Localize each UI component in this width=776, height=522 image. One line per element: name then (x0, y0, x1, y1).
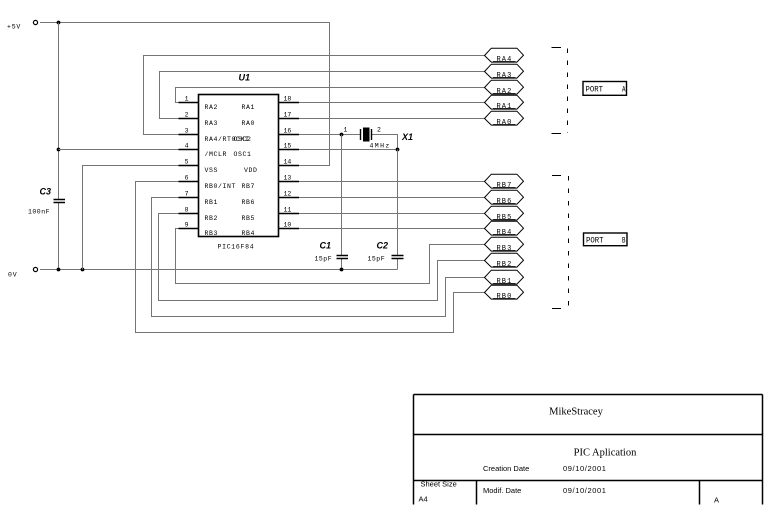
svg-text:RB5: RB5 (241, 215, 255, 222)
svg-text:6: 6 (185, 175, 189, 182)
svg-text:10: 10 (284, 222, 292, 229)
svg-text:RA2: RA2 (497, 88, 513, 96)
junction 0V rail and C1 (340, 268, 344, 272)
capacitor C2 (392, 256, 404, 259)
svg-text:14: 14 (284, 159, 292, 166)
svg-text:RA3: RA3 (497, 72, 513, 80)
svg-text:C2: C2 (377, 241, 389, 251)
net flag RB7 (485, 174, 524, 190)
svg-text:RB1: RB1 (205, 199, 219, 206)
svg-text:RB3: RB3 (497, 245, 513, 253)
IC U1 PIC16F84 body (199, 95, 279, 237)
svg-text:4MHz: 4MHz (370, 143, 391, 150)
net flag RB1 (485, 270, 524, 286)
svg-text:09/10/2001: 09/10/2001 (563, 486, 607, 495)
svg-text:RB5: RB5 (497, 214, 513, 222)
svg-text:RB6: RB6 (497, 198, 513, 206)
wire crystal pin2 to corner (372, 135, 398, 150)
svg-text:OSC1: OSC1 (233, 151, 251, 158)
wire pin7 RB1 to flag (152, 198, 485, 317)
svg-text:15pF: 15pF (368, 256, 386, 263)
svg-text:RB2: RB2 (205, 215, 219, 222)
svg-text:RA0: RA0 (497, 119, 513, 127)
pin 18 stub (279, 102, 300, 104)
wire 0V rail (40, 269, 398, 271)
port A bracket dashed line (567, 49, 569, 134)
svg-text:RB2: RB2 (497, 261, 513, 269)
svg-text:RA4: RA4 (497, 56, 513, 64)
crystal X1 (361, 128, 372, 142)
junction +5V rail and C3 branch (57, 21, 61, 25)
junction OSC1 wire and C2 branch (396, 148, 400, 152)
svg-text:OSC2: OSC2 (233, 136, 251, 143)
svg-text:2: 2 (377, 127, 381, 134)
svg-text:3: 3 (185, 128, 189, 135)
node PORT B box (584, 233, 628, 246)
wire C3 bottom to 0V rail (58, 203, 60, 270)
svg-text:RA0: RA0 (241, 120, 255, 127)
svg-text:VSS: VSS (205, 167, 219, 174)
net flag RA1 (485, 95, 524, 111)
svg-text:2: 2 (185, 112, 189, 119)
svg-text:PORT: PORT (586, 85, 604, 95)
wire pin15 OSC1 (299, 149, 398, 151)
svg-text:RB6: RB6 (241, 199, 255, 206)
svg-text:RB4: RB4 (497, 229, 513, 237)
node +5V terminal (33, 20, 37, 24)
svg-text:PIC Aplication: PIC Aplication (574, 448, 637, 459)
port B bracket top dash (552, 175, 561, 177)
junction 0V rail and C3 (57, 268, 61, 272)
pin 12 stub (279, 197, 300, 199)
wire pin16 OSC2 to crystal (299, 134, 360, 136)
pin 2 stub (179, 118, 199, 120)
svg-text:Sheet Size: Sheet Size (421, 480, 457, 489)
net flag RA4 (485, 48, 524, 64)
wire pin8 RB2 to flag (159, 214, 485, 301)
svg-text:PIC16F84: PIC16F84 (218, 244, 255, 251)
wire VSS pin5 to 0V rail (83, 166, 179, 270)
wire C1 bottom to 0V rail (341, 259, 343, 270)
pin 7 stub (179, 197, 199, 199)
pin 3 stub (179, 134, 199, 136)
svg-text:11: 11 (284, 207, 292, 214)
svg-text:MikeStracey: MikeStracey (549, 407, 603, 418)
port B bracket bottom dash (552, 308, 561, 310)
svg-text:RB7: RB7 (497, 182, 513, 190)
svg-text:U1: U1 (239, 73, 251, 83)
wire pin13 RB7 to flag (299, 181, 485, 183)
svg-text:A: A (714, 496, 719, 505)
capacitor C3 (54, 200, 66, 203)
port A bracket bottom dash (552, 133, 562, 135)
wire +5V rail to VDD pin14 (40, 23, 330, 166)
svg-text:15pF: 15pF (315, 256, 333, 263)
net flag RB3 (485, 237, 524, 253)
pin 6 stub (179, 181, 199, 183)
title block frame (414, 395, 763, 505)
pin 1 stub (179, 102, 199, 104)
node PORT A box (583, 82, 627, 96)
svg-text:9: 9 (185, 222, 189, 229)
svg-text:RB4: RB4 (241, 230, 255, 237)
svg-text:RA1: RA1 (497, 103, 513, 111)
net flag RB5 (485, 206, 524, 222)
pin 16 stub (279, 134, 300, 136)
pin 17 stub (279, 118, 300, 120)
svg-text:16: 16 (284, 128, 292, 135)
svg-text:100nF: 100nF (28, 209, 50, 216)
svg-text:RA1: RA1 (241, 104, 255, 111)
net flag RA3 (485, 64, 524, 80)
pin 11 stub (279, 213, 300, 215)
pin 15 stub (279, 149, 300, 151)
wire pin11 RB5 to flag (299, 213, 485, 215)
pin 13 stub (279, 181, 300, 183)
wire pin17 RA0 to flag (299, 118, 485, 120)
net flag RB2 (485, 253, 524, 269)
pin 10 stub (279, 228, 300, 230)
svg-text:RA2: RA2 (205, 104, 219, 111)
svg-text:13: 13 (284, 175, 292, 182)
net flag RA0 (485, 111, 524, 127)
svg-text:Modif. Date: Modif. Date (483, 486, 521, 495)
svg-text:VDD: VDD (244, 167, 258, 174)
port A bracket top dash (552, 47, 562, 49)
svg-text:0V: 0V (8, 272, 17, 279)
svg-text:B: B (622, 236, 626, 246)
port B bracket dashed line (568, 176, 570, 308)
svg-text:C1: C1 (320, 241, 332, 251)
svg-text:PORT: PORT (586, 236, 604, 246)
svg-text:A: A (622, 85, 626, 95)
wire pin10 RB4 to flag (299, 228, 485, 230)
svg-text:C3: C3 (40, 187, 52, 197)
wire pin18 RA1 to flag (299, 102, 485, 104)
svg-text:RA3: RA3 (205, 120, 219, 127)
svg-text:X1: X1 (401, 132, 413, 142)
wire pin9 RB3 to flag (176, 229, 485, 284)
svg-text:1: 1 (185, 96, 189, 103)
net flag RB0 (485, 285, 524, 301)
svg-text:A4: A4 (419, 495, 428, 504)
wire pin2 RA3 to flag (160, 72, 485, 119)
svg-text:17: 17 (284, 112, 292, 119)
wire pin6 RB0 to flag (136, 182, 485, 333)
wire C2 branch (397, 150, 399, 256)
svg-text:15: 15 (284, 143, 292, 150)
wire MCLR to pin 4 (59, 149, 179, 151)
svg-text:8: 8 (185, 207, 189, 214)
wire pin1 RA2 to flag (176, 88, 485, 103)
wire pin12 RB6 to flag (299, 197, 485, 199)
svg-text:RB0: RB0 (497, 293, 513, 301)
pin 9 stub (179, 228, 199, 230)
svg-text:+5V: +5V (7, 24, 21, 31)
svg-text:12: 12 (284, 191, 292, 198)
junction crystal pin1 and C1 branch (340, 133, 344, 137)
pin 14 stub (279, 165, 300, 167)
svg-text:09/10/2001: 09/10/2001 (563, 464, 607, 473)
wire C1 branch (341, 135, 343, 256)
svg-text:4: 4 (185, 143, 189, 150)
wire pin3 RA4 to flag (144, 56, 485, 135)
node 0V terminal (33, 267, 37, 271)
junction MCLR tap (57, 148, 61, 152)
svg-text:RB7: RB7 (241, 183, 255, 190)
junction 0V rail and VSS branch (81, 268, 85, 272)
pin 5 stub (179, 165, 199, 167)
svg-text:Creation Date: Creation Date (483, 464, 529, 473)
net flag RA2 (485, 80, 524, 96)
svg-text:/MCLR: /MCLR (205, 151, 228, 158)
pin 8 stub (179, 213, 199, 215)
svg-text:RB0/INT: RB0/INT (205, 183, 237, 190)
capacitor C1 (337, 256, 349, 259)
pin 4 stub (179, 149, 199, 151)
svg-text:7: 7 (185, 191, 189, 198)
net flag RB4 (485, 221, 524, 237)
svg-text:1: 1 (344, 127, 348, 134)
svg-text:18: 18 (284, 96, 292, 103)
svg-text:RB1: RB1 (497, 278, 513, 286)
wire +5V branch down to C3 (58, 23, 60, 200)
svg-text:RB3: RB3 (205, 230, 219, 237)
svg-text:5: 5 (185, 159, 189, 166)
net flag RB6 (485, 190, 524, 206)
wire C2 bottom to 0V rail (397, 259, 399, 270)
